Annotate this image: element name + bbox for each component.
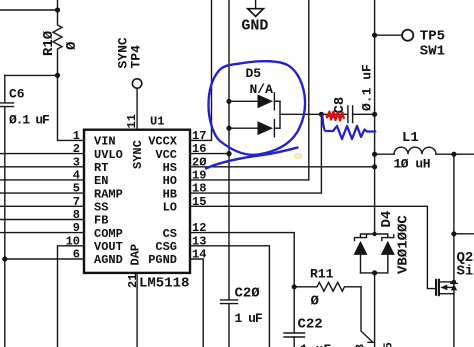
svg-text:R1Ø: R1Ø xyxy=(41,30,57,56)
svg-text:DAP: DAP xyxy=(129,244,143,266)
capacitor C8 xyxy=(347,106,349,123)
wire pin1 vertical xyxy=(58,75,85,140)
wire HB pin18 xyxy=(190,114,321,193)
svg-text:VIN: VIN xyxy=(94,135,116,149)
svg-text:TP4: TP4 xyxy=(129,45,144,69)
node D4 bottom junction xyxy=(372,270,377,275)
node HS junction xyxy=(372,164,377,169)
diode D5 lower xyxy=(229,127,258,129)
svg-text:C22: C22 xyxy=(298,317,323,333)
svg-text:2Ø: 2Ø xyxy=(192,155,206,169)
svg-text:FB: FB xyxy=(94,214,108,228)
svg-text:C6: C6 xyxy=(9,87,25,102)
svg-text:VBØ1ØØC: VBØ1ØØC xyxy=(396,215,412,274)
wire C8 right xyxy=(353,113,375,115)
resistor R1 0 xyxy=(53,10,62,75)
wire VCC pin16 xyxy=(190,153,229,155)
svg-text:CS: CS xyxy=(163,227,177,241)
wire VIN top vertical stub xyxy=(57,0,59,10)
svg-text:15: 15 xyxy=(192,195,206,209)
pin 11 SYNC stub xyxy=(136,88,138,129)
svg-text:RAMP: RAMP xyxy=(94,187,123,201)
connector pin 3 tick xyxy=(368,341,373,343)
svg-text:9: 9 xyxy=(73,221,80,235)
svg-text:1 uF: 1 uF xyxy=(235,311,263,326)
wire C6 horizontal xyxy=(5,74,58,76)
svg-text:PGND: PGND xyxy=(148,253,177,267)
capacitor C22 xyxy=(293,287,295,333)
annotation blue swoosh xyxy=(206,148,298,169)
inductor L1 xyxy=(375,153,394,155)
annotation yellow smudge xyxy=(293,153,303,160)
wire Q2 drain vertical xyxy=(453,154,455,347)
resistor R11 0 xyxy=(294,282,361,291)
diode D5 upper xyxy=(229,100,258,102)
diode D4 left triangle xyxy=(354,241,368,255)
node L1 left junction xyxy=(372,152,377,157)
transistor Q2 gate bar xyxy=(435,280,437,295)
svg-text:EN: EN xyxy=(94,174,108,188)
transistor Q2 body arrow xyxy=(440,285,447,291)
svg-text:19: 19 xyxy=(192,169,206,183)
wire C8 left xyxy=(280,113,348,115)
wire PGND pin14 xyxy=(190,259,203,347)
svg-text:U1: U1 xyxy=(150,115,164,129)
svg-text:4: 4 xyxy=(73,169,80,183)
wire D5 cathode join xyxy=(279,101,281,128)
svg-text:1: 1 xyxy=(73,129,80,143)
wire VCC vertical xyxy=(228,0,230,300)
annotation blue loop around D5 xyxy=(209,61,306,155)
wire SS xyxy=(0,205,84,207)
svg-text:UVLO: UVLO xyxy=(94,148,123,162)
svg-text:COMP: COMP xyxy=(94,227,123,241)
svg-text:N/A: N/A xyxy=(250,82,274,97)
svg-text:Ø: Ø xyxy=(64,41,80,50)
wire VIN top horizontal xyxy=(0,9,58,11)
svg-text:21: 21 xyxy=(126,274,140,288)
node CS R11 C22 junction xyxy=(292,284,297,289)
svg-text:17: 17 xyxy=(192,129,206,143)
annotation blue resistor squiggle xyxy=(322,115,375,139)
wire VCCX pin17 xyxy=(190,0,212,140)
svg-text:Ø.1 uF: Ø.1 uF xyxy=(9,113,50,128)
diode D4 left anode lead xyxy=(360,255,362,273)
node D5 lower anode junction xyxy=(226,126,231,131)
wire VOUT xyxy=(58,246,85,347)
svg-text:Ø: Ø xyxy=(311,294,320,310)
wire CS pin12 xyxy=(190,233,294,287)
svg-text:D4: D4 xyxy=(379,211,395,228)
svg-text:13: 13 xyxy=(192,234,206,248)
svg-text:16: 16 xyxy=(192,142,206,156)
node VIN top junction xyxy=(55,7,60,12)
wire HO pin19 xyxy=(190,0,309,180)
wire LO pin15 xyxy=(190,206,436,288)
transistor Q2 body diode xyxy=(451,284,457,290)
svg-text:D5: D5 xyxy=(246,66,262,81)
svg-text:7: 7 xyxy=(73,195,80,209)
svg-text:CSG: CSG xyxy=(155,240,177,254)
testpoint TP5 SW1 xyxy=(402,30,413,41)
capacitor C20 xyxy=(221,299,238,301)
svg-text:GND: GND xyxy=(241,18,268,35)
svg-text:AGND: AGND xyxy=(94,253,123,267)
wire HS pin20 xyxy=(190,166,375,168)
node D5 upper anode junction xyxy=(226,99,231,104)
svg-text:6: 6 xyxy=(73,248,80,262)
wire COMP xyxy=(0,232,84,234)
svg-text:1 uF: 1 uF xyxy=(300,342,331,347)
wire RT xyxy=(0,166,84,168)
node TP5 junction xyxy=(372,33,377,38)
op-amp U1 LM5118 chip body xyxy=(84,130,190,273)
svg-text:TP5: TP5 xyxy=(420,29,445,45)
svg-text:14: 14 xyxy=(192,248,206,262)
transistor Q2 source lead xyxy=(439,293,454,295)
svg-text:VOUT: VOUT xyxy=(94,240,123,254)
annotation red scribble on C8 wire xyxy=(327,112,344,121)
text labels group xyxy=(66,114,207,288)
diode D4 right anode lead xyxy=(387,255,389,273)
node D4 top junction xyxy=(372,232,376,236)
diode D4 right triangle xyxy=(381,241,395,255)
svg-text:11: 11 xyxy=(125,114,139,128)
svg-text:10: 10 xyxy=(66,234,80,248)
svg-text:VCC: VCC xyxy=(155,148,177,162)
svg-text:5: 5 xyxy=(73,182,80,196)
diode D4 top rail xyxy=(361,234,388,238)
wire TP5 xyxy=(375,34,402,36)
wire CSG pin13 xyxy=(190,246,269,347)
svg-text:SYNC: SYNC xyxy=(131,140,145,169)
svg-text:LO: LO xyxy=(163,201,177,215)
transistor Q2 drain lead xyxy=(439,281,454,283)
pin 21 DAP stub xyxy=(136,273,138,347)
svg-text:5: 5 xyxy=(382,342,396,347)
svg-text:Si7850: Si7850 xyxy=(457,264,474,280)
diode D4 right schottky cathode xyxy=(382,235,394,241)
transistor Q2 channel dashes xyxy=(438,280,440,295)
node AGND left junction xyxy=(2,256,7,261)
svg-text:1Ø uH: 1Ø uH xyxy=(394,157,431,172)
node VCC pin16 junction xyxy=(226,151,231,156)
capacitor C6 xyxy=(4,75,6,102)
svg-text:LM5118: LM5118 xyxy=(139,276,189,292)
diode D4 bottom rail xyxy=(361,272,388,274)
wire to right edge xyxy=(454,233,474,235)
svg-text:HB: HB xyxy=(163,187,177,201)
node HB C8 junction xyxy=(319,112,324,117)
wire EN xyxy=(0,179,84,181)
diode D4 left schottky cathode xyxy=(355,235,367,241)
node C8 SW junction xyxy=(372,112,377,117)
wire D4 to connector pin5 xyxy=(374,273,376,347)
svg-text:HO: HO xyxy=(163,174,177,188)
node L1 right junction xyxy=(451,152,456,157)
svg-text:R11: R11 xyxy=(310,267,334,282)
svg-text:SW1: SW1 xyxy=(420,44,445,60)
wire R11 to connector pin3 xyxy=(361,287,373,343)
svg-text:2: 2 xyxy=(73,142,80,156)
wire AGND xyxy=(5,258,84,260)
svg-text:8: 8 xyxy=(73,208,80,222)
svg-text:3: 3 xyxy=(73,155,80,169)
svg-text:RT: RT xyxy=(94,161,108,175)
svg-text:VCCX: VCCX xyxy=(148,135,178,149)
svg-text:HS: HS xyxy=(163,161,177,175)
wire L1 out to right edge xyxy=(454,153,474,155)
wire SW vertical xyxy=(374,0,376,234)
wire UVLO xyxy=(0,153,84,155)
node Q2 drain lead junction xyxy=(452,280,456,284)
node drain branch junction xyxy=(451,231,456,236)
node R10 bottom junction xyxy=(55,73,60,78)
wire RAMP xyxy=(0,192,84,194)
svg-text:Ø.1 uF: Ø.1 uF xyxy=(360,64,375,111)
svg-text:SS: SS xyxy=(94,201,108,215)
svg-text:C2Ø: C2Ø xyxy=(235,286,261,302)
ground GND symbol xyxy=(255,0,257,9)
testpoint TP4 xyxy=(132,79,141,88)
svg-text:12: 12 xyxy=(192,221,206,235)
svg-text:L1: L1 xyxy=(402,130,419,146)
wire FB xyxy=(0,219,84,221)
svg-text:18: 18 xyxy=(192,182,206,196)
